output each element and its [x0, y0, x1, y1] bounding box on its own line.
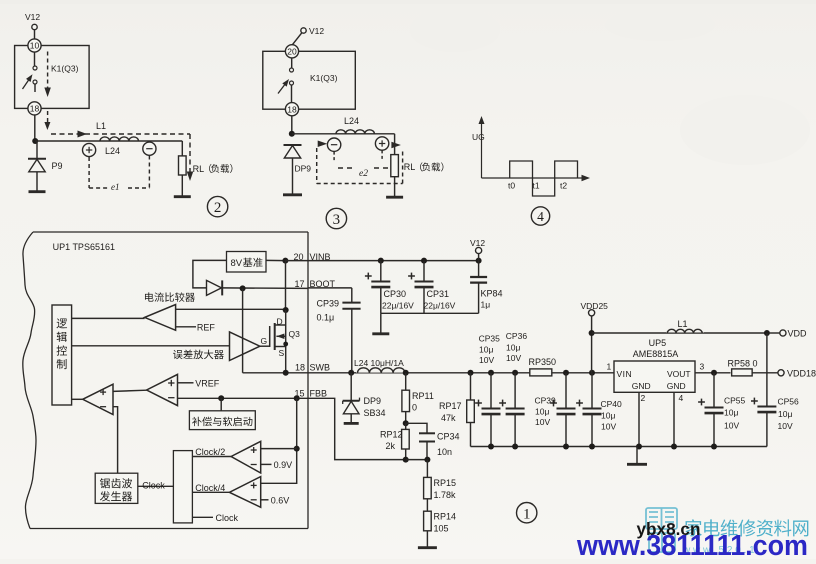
svg-text:10V: 10V — [778, 421, 793, 431]
svg-text:GND: GND — [632, 381, 651, 391]
wire — [34, 115, 36, 141]
svg-text:8V: 8V — [231, 258, 243, 269]
resistor RP12 — [402, 429, 410, 449]
wire logic to error amp — [72, 345, 230, 347]
control dashed arrow K1 — [47, 52, 49, 91]
svg-text:20: 20 — [294, 252, 304, 262]
wire diode to BOOT junction — [223, 287, 308, 290]
wire VDD25 down — [591, 316, 593, 373]
divider block — [173, 451, 192, 523]
svg-text:e2: e2 — [359, 169, 368, 179]
ground symbol on rail — [636, 447, 638, 464]
svg-text:DP9: DP9 — [364, 396, 382, 406]
node L24 output junction — [403, 370, 409, 376]
capacitor CP40 — [589, 370, 595, 376]
svg-text:10V: 10V — [601, 422, 616, 432]
switch K1 contacts — [33, 66, 37, 70]
wire VINB rail — [308, 260, 479, 262]
svg-text:Clock: Clock — [216, 513, 239, 523]
compensation soft-start box 补偿与软启动 — [220, 398, 222, 411]
wire VOUT pin3 — [695, 372, 731, 374]
IC UP1 TPS65161 outline with torn left edge — [23, 232, 36, 529]
dashed loop e1 — [88, 157, 90, 188]
wire VINB down to Q3 drain — [285, 261, 287, 310]
sawtooth generator box 锯齿波发生器 — [95, 473, 138, 503]
ground below RP14 — [426, 531, 428, 547]
terminal VDD — [780, 330, 786, 336]
svg-text:UP5: UP5 — [649, 338, 667, 348]
switch contacts (circuit 3) — [290, 68, 294, 72]
svg-text:UP1 TPS65161: UP1 TPS65161 — [53, 242, 115, 252]
node CP34 bottom junction — [424, 457, 430, 463]
wire logic to comparator 2 — [72, 398, 83, 400]
wire 8V ref left to diode — [193, 260, 227, 288]
svg-text:2k: 2k — [386, 441, 396, 451]
circled 3 — [326, 208, 346, 228]
svg-text:10V: 10V — [724, 421, 739, 431]
svg-text:Q3: Q3 — [289, 329, 301, 339]
capacitor CP56 — [766, 333, 768, 407]
REF input stub — [176, 326, 196, 328]
svg-text:K1(Q3): K1(Q3) — [310, 73, 338, 83]
svg-text:0.6V: 0.6V — [271, 496, 290, 506]
source e1 plus terminal — [83, 143, 96, 156]
ground below DP9 — [344, 422, 359, 425]
node A junction — [32, 138, 38, 144]
svg-text:1.78k: 1.78k — [434, 490, 457, 500]
svg-text:FBB: FBB — [310, 388, 328, 398]
0.9V reference stub — [261, 463, 272, 465]
pin 18 (circuit 3) — [285, 103, 298, 116]
svg-text:L24: L24 — [344, 116, 359, 126]
node FBB junction to soft start — [218, 395, 224, 401]
svg-text:RP14: RP14 — [434, 512, 457, 522]
wire to clock2 plus — [261, 448, 297, 450]
capacitor CP34 — [406, 423, 427, 433]
wire Clock from sawtooth to divider — [138, 485, 174, 487]
terminal VDD25 — [589, 310, 595, 316]
capacitor CP39 output — [563, 370, 569, 376]
capacitor CP36 — [512, 370, 518, 376]
wire FBB line inside IC — [178, 397, 309, 399]
svg-text:4: 4 — [679, 393, 684, 403]
svg-text:22μ/16V: 22μ/16V — [382, 301, 414, 311]
resistor RP350 — [530, 369, 552, 376]
wire to load — [35, 140, 182, 142]
svg-text:t1: t1 — [533, 181, 540, 191]
svg-text:Clock: Clock — [142, 480, 165, 490]
svg-text:10V: 10V — [535, 417, 550, 427]
wire — [291, 58, 293, 68]
wire 8V ref right to VINB — [266, 259, 285, 261]
ground below RL — [181, 175, 183, 196]
square wave UG — [510, 161, 578, 196]
VREF input stub — [178, 382, 194, 384]
svg-text:V12: V12 — [25, 12, 40, 22]
svg-text:CP39: CP39 — [535, 396, 557, 406]
svg-text:SB34: SB34 — [364, 408, 386, 418]
op-amp current comparator — [145, 305, 176, 331]
node BOOT junction — [240, 285, 246, 291]
svg-text:t0: t0 — [508, 181, 515, 191]
svg-text:V12: V12 — [309, 26, 324, 36]
svg-text:VDD18: VDD18 — [787, 369, 816, 379]
ground below P9 — [36, 172, 38, 191]
svg-text:RP350: RP350 — [529, 357, 557, 367]
svg-text:10V: 10V — [479, 355, 494, 365]
svg-text:CP36: CP36 — [506, 331, 528, 341]
node VDD25 branch — [589, 330, 595, 336]
node Q3 drain junction — [283, 307, 289, 313]
wire BOOT external — [308, 287, 352, 289]
svg-text:L24 10μH/1A: L24 10μH/1A — [354, 358, 404, 368]
resistor RP14 — [426, 499, 428, 511]
node B junction — [289, 131, 295, 137]
wire FBB external — [308, 398, 406, 459]
svg-text:10V: 10V — [506, 353, 521, 363]
capacitor KP84 — [478, 261, 480, 277]
diode DP9 SB34 — [350, 373, 352, 400]
watermark book logo — [646, 508, 677, 552]
svg-text:RL: RL — [193, 164, 205, 174]
svg-text:RP58 0: RP58 0 — [728, 359, 758, 369]
wire VINB junction to IC edge — [285, 260, 308, 262]
svg-text:17: 17 — [295, 279, 305, 289]
label e2 with dashes — [338, 167, 356, 169]
op-amp Clock/2 comparator — [231, 441, 261, 473]
terminal VDD18 — [778, 370, 784, 376]
node RP12 bottom junction — [403, 457, 409, 463]
svg-text:P9: P9 — [52, 161, 63, 171]
svg-text:RP12: RP12 — [380, 430, 403, 440]
node RP11 bottom junction — [403, 420, 409, 426]
svg-text:10μ: 10μ — [601, 411, 615, 421]
source e2 minus terminal — [327, 138, 340, 151]
node VDD junction — [764, 330, 770, 336]
svg-text:3: 3 — [700, 362, 705, 372]
svg-text:CP39: CP39 — [317, 299, 340, 309]
wire cap ground rail — [381, 312, 479, 314]
watermark 家电维修资料网 — [685, 519, 808, 536]
wire SWB inside IC — [243, 372, 308, 374]
svg-text:47k: 47k — [441, 413, 456, 423]
svg-text:18: 18 — [295, 362, 305, 372]
svg-text:105: 105 — [434, 524, 449, 534]
resistor RP58 — [732, 369, 753, 376]
capacitor CP35 — [488, 370, 494, 376]
svg-text:L1: L1 — [96, 121, 106, 131]
svg-text:1: 1 — [523, 506, 531, 522]
svg-text:V12: V12 — [470, 238, 485, 248]
svg-text:VIN: VIN — [617, 369, 633, 379]
terminal V12 supply — [476, 247, 482, 253]
svg-text:18: 18 — [30, 103, 40, 113]
svg-text:0.9V: 0.9V — [274, 460, 293, 470]
svg-text:VOUT: VOUT — [667, 369, 691, 379]
wire RP58 to VDD18 — [752, 372, 778, 374]
diode D1 to BOOT — [207, 280, 222, 295]
svg-text:0: 0 — [412, 403, 417, 413]
dashed loop e2 — [316, 148, 318, 184]
svg-text:VDD: VDD — [788, 329, 808, 339]
switch actuator arrow — [23, 77, 32, 90]
svg-text:18: 18 — [287, 104, 297, 114]
svg-text:CP30: CP30 — [384, 289, 407, 299]
source e1 minus terminal — [143, 142, 156, 155]
resistor RP11 — [405, 373, 407, 390]
wire — [34, 52, 36, 66]
node S junction on SWB — [283, 370, 289, 376]
resistor RP17 — [468, 370, 474, 376]
wire Clock/4 — [192, 491, 229, 493]
pin 20 — [285, 45, 298, 58]
ground below CP30 — [380, 313, 382, 333]
svg-text:3: 3 — [333, 212, 341, 228]
0.6V reference stub — [261, 499, 269, 501]
svg-text:VDD25: VDD25 — [581, 301, 609, 311]
diode P9 — [36, 141, 38, 158]
circled 2 — [207, 196, 227, 216]
svg-text:SWB: SWB — [310, 362, 331, 372]
svg-text:CP35: CP35 — [479, 334, 501, 344]
inductor L24 (circuit 3) — [336, 130, 374, 134]
8V reference box 8V基准 — [227, 252, 267, 273]
wire Clock output stub — [192, 516, 213, 518]
relay K1 box (circuit 2) — [15, 46, 90, 109]
capacitor CP55 — [713, 373, 715, 408]
svg-text:L24: L24 — [105, 146, 120, 156]
wire comp2 minus to sawtooth generator — [113, 407, 118, 474]
svg-text:RP15: RP15 — [434, 478, 457, 488]
svg-text:20: 20 — [287, 46, 297, 56]
capacitor CP30 — [380, 261, 382, 282]
op-amp comparator 2 — [83, 384, 113, 414]
node junctions on ground rail — [488, 444, 494, 450]
svg-text:4: 4 — [537, 209, 544, 224]
wire bottom ground rail — [471, 446, 767, 448]
wire — [292, 33, 302, 45]
wire to L1 — [592, 332, 767, 334]
svg-text:1: 1 — [607, 362, 612, 372]
resistor RP15 — [426, 460, 428, 478]
switch actuator arrow (circuit 3) — [278, 81, 288, 94]
svg-text:REF: REF — [197, 323, 216, 333]
op-amp error amplifier 误差放大器 — [230, 332, 260, 361]
svg-text:K1(Q3): K1(Q3) — [51, 64, 79, 74]
svg-text:CP55: CP55 — [724, 396, 746, 406]
node clock2 plus junction — [294, 446, 300, 452]
svg-text:0.1μ: 0.1μ — [317, 313, 335, 323]
svg-text:10μ: 10μ — [778, 409, 792, 419]
svg-text:AME8815A: AME8815A — [633, 349, 679, 359]
svg-text:2: 2 — [214, 200, 222, 216]
svg-text:S: S — [279, 348, 285, 358]
svg-text:CP56: CP56 — [778, 397, 800, 407]
node DP9 junction — [348, 370, 354, 376]
svg-text:RP17: RP17 — [439, 401, 462, 411]
svg-text:GND: GND — [667, 381, 686, 391]
node FBB junction to clock comparators — [294, 395, 300, 401]
svg-text:1μ: 1μ — [481, 300, 491, 310]
transistor Q3 MOSFET — [285, 310, 287, 373]
current path L1 dashed — [44, 122, 50, 130]
IC UP5 AME8815A — [614, 361, 695, 392]
svg-text:t2: t2 — [560, 181, 567, 191]
node CP30 junction — [378, 258, 384, 264]
node CP31 junction — [421, 258, 427, 264]
wire pin4 to ground rail — [673, 392, 675, 446]
svg-text:VREF: VREF — [195, 378, 220, 388]
node V12 junction — [476, 258, 482, 264]
svg-text:CP34: CP34 — [437, 432, 460, 442]
wire — [291, 116, 293, 134]
current arrow to RL — [391, 142, 401, 149]
svg-text:D: D — [277, 317, 283, 327]
svg-text:15: 15 — [295, 388, 305, 398]
svg-text:UG: UG — [472, 132, 485, 142]
current arrow into e2 — [318, 141, 328, 148]
resistor RL (circuit 3) — [391, 155, 399, 177]
svg-text:2: 2 — [641, 393, 646, 403]
node VINB junction — [282, 258, 288, 264]
ground below DP9 (circuit 3) — [292, 158, 294, 194]
svg-text:CP40: CP40 — [601, 399, 623, 409]
svg-text:Clock/2: Clock/2 — [195, 447, 225, 457]
op-amp Clock/4 comparator — [229, 477, 260, 508]
svg-text:L1: L1 — [678, 319, 688, 329]
svg-text:e1: e1 — [111, 182, 120, 192]
wire — [34, 30, 36, 39]
wire — [406, 459, 428, 461]
ground below RL (circuit 3) — [394, 177, 396, 197]
resistor RL (circuit 2) — [179, 156, 187, 175]
wire Clock/2 — [192, 456, 231, 458]
svg-text:10: 10 — [30, 41, 40, 51]
diode DP9 (circuit 3) — [284, 144, 302, 146]
svg-text:www.3811111.com: www.3811111.com — [576, 530, 808, 559]
wire FBB to clock comparators — [261, 398, 297, 483]
op-amp VREF comparator — [147, 374, 178, 405]
inductor L1 output — [666, 325, 704, 333]
svg-text:KP84: KP84 — [481, 289, 503, 299]
inductor L24 (circuit 2) — [100, 137, 139, 141]
relay K1 box (circuit 3) — [263, 51, 356, 109]
wire logic to current comparator — [72, 317, 145, 319]
svg-text:RL: RL — [404, 162, 416, 172]
svg-text:10μ: 10μ — [724, 408, 738, 418]
wire to load (circuit 3) — [292, 133, 395, 135]
svg-text:10μ: 10μ — [535, 407, 549, 417]
svg-text:DP9: DP9 — [295, 164, 312, 174]
svg-text:10μ: 10μ — [479, 345, 493, 355]
wire BOOT junction down to SWB — [242, 288, 244, 372]
pin 10 — [28, 39, 41, 52]
wire VREF comp tip to comparator 2 — [113, 390, 147, 391]
circled 4 — [531, 207, 549, 225]
pin 18 — [28, 102, 41, 115]
svg-text:RP11: RP11 — [412, 391, 434, 401]
node VOUT junction — [711, 370, 717, 376]
capacitor CP31 — [423, 261, 425, 282]
logic control block 逻辑控制 — [52, 305, 72, 405]
wire pin2 to ground rail — [638, 392, 640, 446]
label 电流比较器 — [145, 292, 195, 302]
svg-text:10μ: 10μ — [506, 343, 520, 353]
wire SWB rail to UP5 — [308, 372, 614, 374]
capacitor CP39 bootstrap — [342, 302, 360, 304]
svg-text:G: G — [261, 336, 268, 346]
inductor L24 output — [356, 364, 406, 373]
svg-text:CP31: CP31 — [427, 289, 450, 299]
source e2 plus terminal — [375, 137, 388, 150]
svg-text:Clock/4: Clock/4 — [195, 483, 225, 493]
svg-text:22μ/16V: 22μ/16V — [424, 301, 456, 311]
svg-text:10n: 10n — [437, 447, 452, 457]
circled 1 — [517, 503, 537, 523]
wire comparator to Q3 drain node — [176, 308, 286, 310]
